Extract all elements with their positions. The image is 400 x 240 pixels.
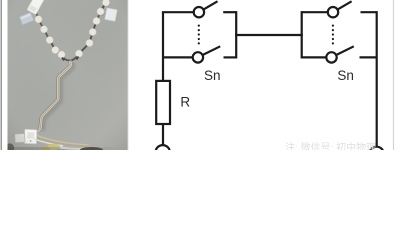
wire: left rail (block 1) — [162, 12, 164, 81]
bulbs left string — [35, 0, 110, 58]
wire: top branch right stub (block 2) — [361, 11, 377, 13]
ellipsis: more switches (block 2) — [332, 25, 334, 27]
wire: top branch left stub to switch S1 — [162, 11, 194, 13]
bulbs right string — [102, 0, 109, 6]
ellipsis: more switches (block 1) — [198, 25, 334, 45]
wire: bottom branch right stub (block 2) — [360, 56, 377, 58]
wire: bottom branch left stub to switch Sn — [163, 56, 193, 58]
cable shadow — [43, 63, 73, 131]
page background — [0, 0, 400, 150]
switch Sn' pivot terminal (block 2) — [326, 52, 336, 62]
card right border — [393, 0, 394, 150]
gray box — [15, 134, 25, 143]
wire: top branch right stub — [223, 11, 236, 13]
wire: top branch left stub to switch S1' (block 2) — [302, 11, 328, 13]
svg-text:R: R — [180, 95, 190, 110]
wire: right rail down to lamp (block 2) — [376, 11, 378, 147]
svg-text:Sn: Sn — [337, 68, 354, 83]
switch S1 blade (open) — [203, 1, 217, 9]
switch S1 pivot terminal — [194, 7, 204, 17]
lamp L1 (cut off at bottom) — [156, 145, 170, 159]
twisted pair cable — [38, 61, 71, 132]
svg-text:Sn: Sn — [204, 68, 221, 83]
top-left connector plug — [27, 0, 45, 15]
white tag on right string — [101, 12, 108, 16]
lamp L2 (cut off at bottom) — [369, 147, 383, 161]
switch S1' blade (open) — [338, 1, 352, 9]
wire: link between block 1 and block 2 — [235, 34, 303, 36]
bottom cable clutter — [37, 136, 89, 146]
wire: left rail (block 2) — [301, 11, 303, 58]
wire: rail below resistor — [162, 124, 164, 145]
switch Sn' blade (open) — [336, 46, 354, 55]
twist marks below V bulbs — [62, 57, 79, 61]
resistor R body — [156, 81, 170, 124]
switch S1' pivot terminal (block 2) — [328, 7, 338, 17]
photo right edge — [127, 0, 130, 150]
light string dark wire — [34, 0, 108, 61]
blue tag — [19, 12, 34, 25]
wire: bottom branch right stub — [224, 56, 237, 58]
wire: bottom branch left stub to switch Sn' (block 2) — [302, 56, 327, 58]
wire: right rail (block 1) — [235, 11, 237, 58]
switch Sn blade (open) — [203, 46, 221, 55]
page left edge line — [1, 0, 2, 150]
controller white box — [24, 129, 37, 144]
svg-text:注: 微信号: 初中物理: 注: 微信号: 初中物理 — [285, 141, 376, 150]
switch Sn pivot terminal (block 1) — [193, 52, 203, 62]
photo: light string on gray wall — [5, 0, 128, 153]
